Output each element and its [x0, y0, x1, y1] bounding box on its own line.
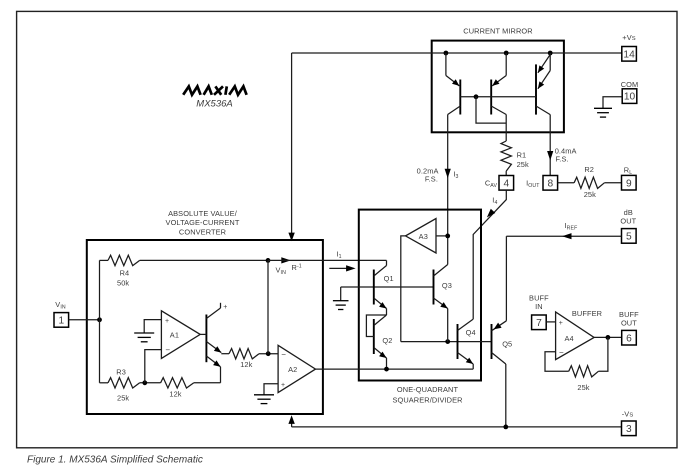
- svg-text:−: −: [281, 350, 286, 359]
- transistor Q3: [434, 264, 452, 342]
- current mirror block box: [432, 41, 564, 133]
- svg-text:CONVERTER: CONVERTER: [179, 228, 226, 237]
- pin 1: [54, 313, 69, 328]
- op-amp A4: [556, 312, 595, 360]
- svg-text:CURRENT MIRROR: CURRENT MIRROR: [463, 27, 532, 36]
- resistor 12k lower: [161, 378, 194, 388]
- one-quadrant block box: [359, 210, 481, 381]
- svg-text:R1: R1: [517, 151, 527, 160]
- pin 8: [543, 176, 558, 191]
- wire base-collector tie: [476, 97, 506, 123]
- wire A1 minus input: [145, 350, 162, 383]
- wire A3 input: [436, 235, 448, 237]
- node base tie dot: [474, 94, 479, 99]
- node Q3 emitter dot: [445, 339, 450, 344]
- wire A2 plus input: [264, 384, 278, 395]
- pin 6: [622, 330, 637, 345]
- svg-text:Q3: Q3: [442, 281, 452, 290]
- ground COM: [594, 107, 612, 109]
- resistor 25k buffer: [569, 366, 599, 377]
- transistor mirror T1: [446, 53, 460, 115]
- wire bottom rail to -Vs: [292, 426, 622, 428]
- wire R2 to pin9: [604, 182, 621, 184]
- wire feedback from +Vs rail into abs block: [291, 53, 293, 234]
- svg-text:A4: A4: [565, 334, 574, 343]
- svg-text:Q5: Q5: [502, 339, 512, 348]
- transistor Q5: [492, 236, 513, 427]
- node rail dot 2: [504, 51, 509, 56]
- svg-text:SQUARER/DIVIDER: SQUARER/DIVIDER: [392, 395, 462, 404]
- wire I3 vertical: [447, 115, 449, 265]
- wire A3 output: [401, 236, 406, 342]
- svg-text:50k: 50k: [117, 279, 129, 288]
- pin 9: [622, 175, 637, 190]
- svg-text:OUT: OUT: [621, 318, 637, 327]
- svg-text:BUFFER: BUFFER: [572, 309, 602, 318]
- svg-text:R3: R3: [116, 368, 126, 377]
- svg-text:A2: A2: [288, 365, 297, 374]
- resistor R1: [501, 141, 511, 171]
- wire 12k to emitter2: [194, 382, 221, 384]
- resistor 12k upper: [229, 349, 259, 359]
- node A1 minus dot: [142, 380, 147, 385]
- svg-text:F.S.: F.S.: [425, 175, 438, 184]
- svg-text:Q4: Q4: [466, 328, 476, 337]
- svg-text:25k: 25k: [117, 394, 129, 403]
- svg-text:−: −: [165, 346, 170, 355]
- transistor mirror T3 dual-emitter: [536, 53, 550, 115]
- wire Q4 Q5 base line: [401, 341, 492, 343]
- svg-text:Q2: Q2: [382, 336, 392, 345]
- resistor R3: [108, 378, 140, 388]
- svg-text:Figure 1. MX536A Simplified S: Figure 1. MX536A Simplified Schematic: [27, 455, 203, 466]
- wire mirror base rail: [460, 96, 536, 98]
- svg-text:7: 7: [536, 318, 542, 329]
- pin 3: [622, 421, 637, 436]
- svg-text:14: 14: [623, 49, 635, 60]
- node VIN dot: [266, 258, 271, 263]
- wire IREF: [506, 235, 621, 237]
- svg-text:COM: COM: [621, 80, 639, 89]
- wire I4 from pin4: [473, 190, 506, 319]
- resistor R2: [574, 177, 604, 188]
- svg-text:+: +: [223, 304, 227, 311]
- svg-text:8: 8: [547, 178, 553, 189]
- wire R1 to pin4: [505, 171, 507, 176]
- transistor Q1: [374, 260, 394, 315]
- ground A2: [254, 394, 274, 396]
- wire VIN node vertical: [267, 260, 269, 353]
- arrow I3 current: [445, 169, 451, 179]
- wire A4 output: [594, 336, 622, 338]
- op-amp A2: [278, 345, 315, 392]
- svg-text:F.S.: F.S.: [556, 155, 569, 164]
- arrow into abs block top: [288, 233, 294, 242]
- svg-text:+: +: [281, 382, 285, 389]
- abs value block box: [87, 240, 323, 414]
- svg-text:ABSOLUTE VALUE/: ABSOLUTE VALUE/: [168, 209, 238, 218]
- arrow on I1 wire: [281, 257, 291, 263]
- wire I1 out of abs block: [268, 259, 387, 261]
- svg-text:R2: R2: [584, 165, 594, 174]
- svg-text:+: +: [165, 318, 169, 325]
- svg-text:+: +: [559, 320, 563, 327]
- wire R4 run: [100, 259, 109, 261]
- wire R3 to node: [140, 382, 161, 384]
- svg-text:25k: 25k: [517, 160, 529, 169]
- svg-text:Q1: Q1: [384, 274, 394, 283]
- svg-text:OUT: OUT: [620, 217, 636, 226]
- svg-text:6: 6: [626, 333, 632, 344]
- wire R4 to VIN node: [140, 259, 268, 261]
- op-amp A1: [161, 311, 200, 359]
- pin 4: [499, 176, 514, 191]
- wire feedback up into abs block: [291, 423, 293, 427]
- svg-text:1: 1: [58, 316, 64, 327]
- wire +Vs rail: [292, 52, 622, 54]
- svg-text:5: 5: [626, 232, 632, 243]
- wire R3 run: [100, 382, 109, 384]
- svg-text:12k: 12k: [169, 389, 181, 398]
- pin 14: [622, 47, 637, 62]
- transistor Q4: [458, 319, 476, 369]
- transistor mirror T2: [491, 53, 506, 115]
- wire 25k to output: [598, 337, 608, 371]
- wire left inner vertical: [99, 260, 101, 382]
- annotation arrow I1: [329, 267, 349, 269]
- svg-text:−: −: [559, 348, 564, 357]
- svg-text:3: 3: [626, 424, 632, 435]
- svg-text:VOLTAGE-CURRENT: VOLTAGE-CURRENT: [166, 218, 240, 227]
- pin 7: [532, 315, 547, 330]
- ground Q1 Q3 base: [333, 300, 349, 302]
- node rail dot 3: [548, 51, 553, 56]
- wire Q1 Q3 base line: [341, 286, 434, 288]
- svg-text:25k: 25k: [584, 190, 596, 199]
- pin 10: [622, 89, 637, 104]
- wire pin1 to node: [69, 319, 100, 321]
- node A4 output dot: [606, 335, 611, 340]
- svg-text:A1: A1: [170, 330, 179, 339]
- wire A1 plus input: [144, 320, 161, 333]
- wire T3 collector to pin8: [549, 115, 551, 176]
- wire A2 output: [316, 368, 474, 370]
- wire pin7 to A4: [546, 321, 555, 323]
- svg-text:R4: R4: [120, 269, 130, 278]
- arrow I4 current: [487, 209, 495, 218]
- wire A4 feedback: [545, 352, 569, 372]
- resistor R4: [108, 255, 140, 265]
- wire base to ground: [340, 287, 342, 301]
- arrow IREF: [562, 233, 572, 239]
- node A2 minus dot: [266, 351, 271, 356]
- ground A1: [134, 332, 154, 334]
- wire emitter1 to 12k upper: [221, 353, 229, 355]
- op-amp A3: [406, 219, 437, 254]
- transistor Q2: [366, 315, 392, 369]
- svg-text:4: 4: [503, 178, 509, 189]
- svg-text:MX536A: MX536A: [196, 99, 232, 110]
- node A3 input dot: [445, 234, 450, 239]
- wire pin8 to R2: [558, 182, 575, 184]
- node Q5 collector dot: [503, 425, 508, 430]
- arrow 0.4mA current: [547, 151, 553, 161]
- MAXIM logo: [183, 86, 246, 94]
- transistor compound Q after A1: [200, 303, 227, 383]
- wire COM to ground: [603, 97, 622, 109]
- svg-text:ONE-QUADRANT: ONE-QUADRANT: [397, 385, 459, 394]
- pin 5: [622, 229, 637, 244]
- wire 12k upper to A2 minus: [259, 353, 278, 355]
- svg-text:A3: A3: [419, 232, 428, 241]
- svg-text:10: 10: [624, 92, 636, 103]
- wire T2 collector to R1: [505, 115, 507, 142]
- svg-text:9: 9: [626, 178, 632, 189]
- node Q2 emitter dot: [384, 367, 389, 372]
- svg-text:25k: 25k: [577, 383, 589, 392]
- node pin1 dot: [97, 317, 102, 322]
- arrow into abs block bottom: [288, 415, 294, 424]
- node rail dot 1: [444, 51, 449, 56]
- svg-text:IN: IN: [535, 302, 543, 311]
- svg-text:12k: 12k: [240, 360, 252, 369]
